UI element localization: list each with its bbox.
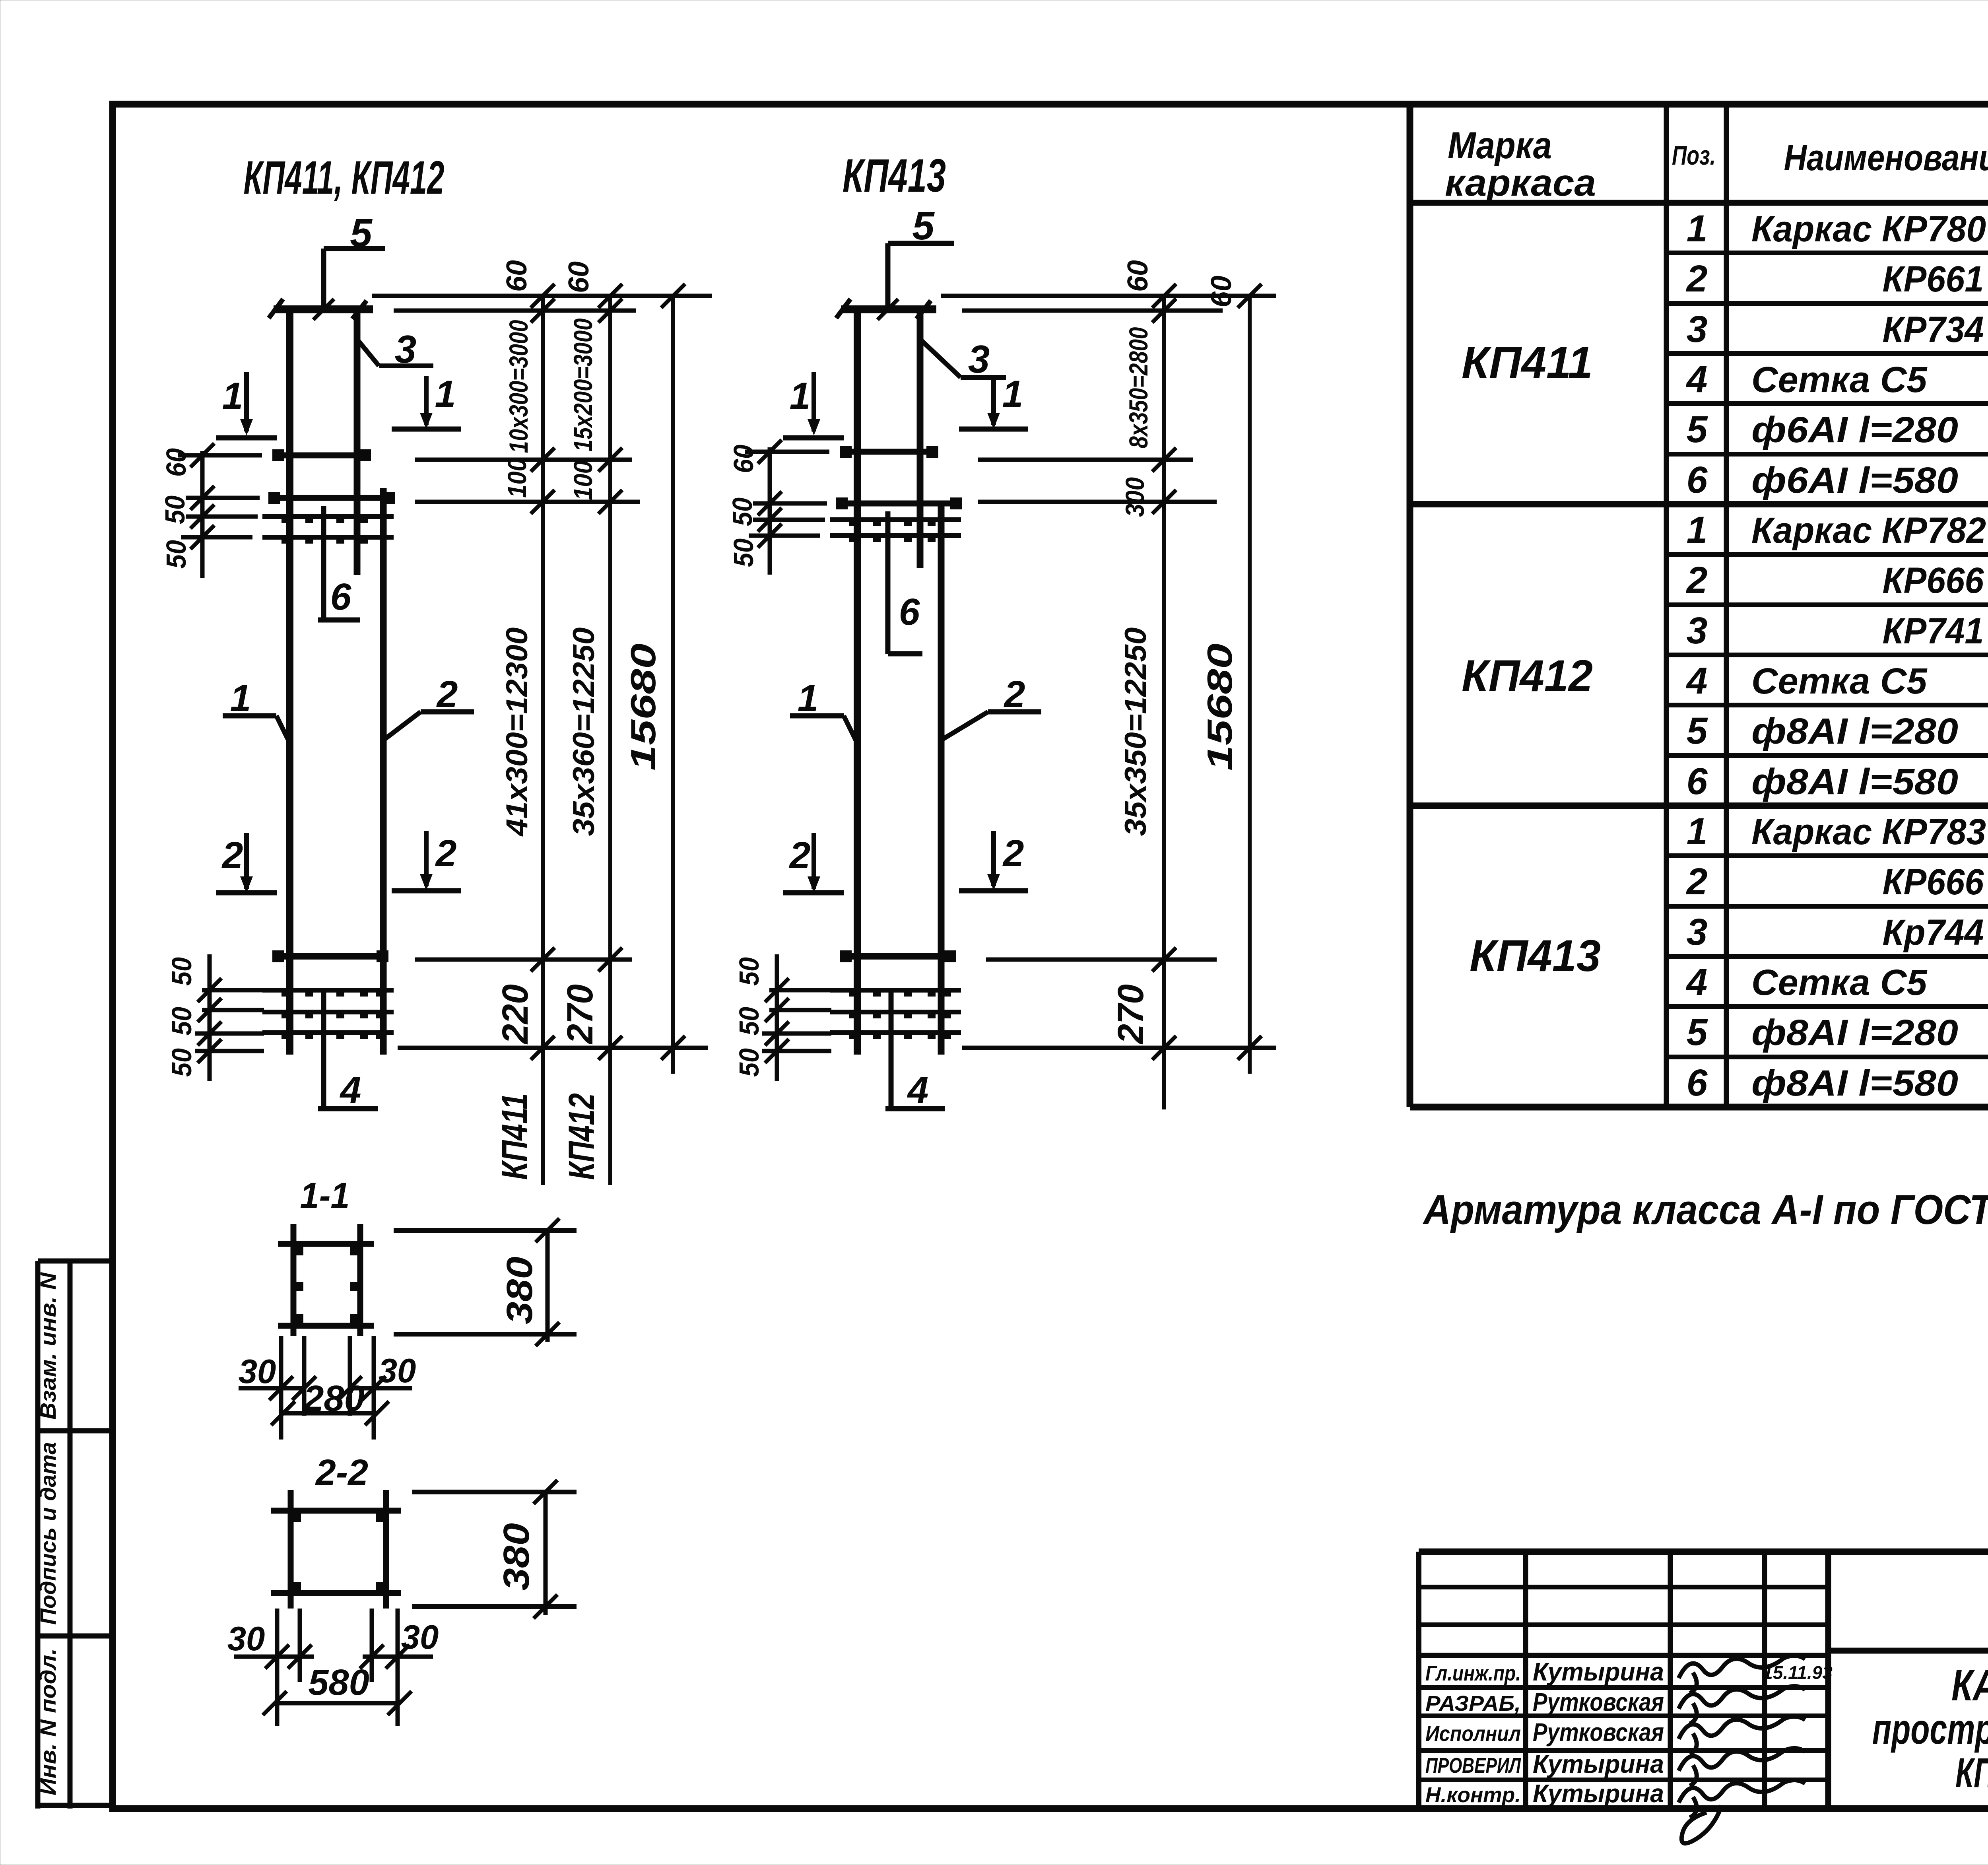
svg-text:Кр744: Кр744: [1883, 912, 1984, 953]
upper joint small dimension lines 60-50-50 (КП413): [745, 440, 829, 575]
svg-text:2: 2: [435, 832, 457, 874]
svg-text:100: 100: [568, 460, 598, 500]
upper joint small dimension lines 60-50-50 (left schematic): [178, 443, 262, 578]
svg-text:5: 5: [350, 211, 373, 255]
svg-text:Рутковская: Рутковская: [1533, 1718, 1664, 1746]
svg-text:Сетка С5: Сетка С5: [1751, 661, 1928, 701]
section mark 1 right (КП413): [959, 376, 1028, 429]
svg-text:Каркас КР782: Каркас КР782: [1751, 510, 1986, 551]
section mark 1 left (КП413): [783, 372, 844, 438]
svg-text:50: 50: [166, 1048, 197, 1077]
svg-text:Каркас КР780: Каркас КР780: [1751, 209, 1986, 249]
part label 1 with leader (КП413): [790, 716, 857, 743]
svg-text:КП413: КП413: [1470, 931, 1601, 981]
svg-text:1: 1: [1687, 810, 1708, 853]
section 1-1 bottom dimensions 30 280 30: [239, 1336, 412, 1440]
svg-text:380: 380: [499, 1257, 540, 1324]
svg-text:3: 3: [395, 327, 417, 371]
svg-text:50: 50: [734, 1048, 765, 1077]
svg-text:КП413: КП413: [843, 150, 946, 202]
svg-text:35x360=12250: 35x360=12250: [567, 627, 601, 836]
svg-text:каркаса: каркаса: [1445, 162, 1596, 204]
right lower longitudinal bar (КП413): [938, 503, 945, 1055]
svg-text:50: 50: [727, 497, 758, 526]
svg-text:КР661: КР661: [1883, 259, 1984, 299]
svg-text:280: 280: [303, 1378, 365, 1419]
svg-text:Взам. инв. N: Взам. инв. N: [35, 1272, 60, 1420]
svg-text:10x300=3000: 10x300=3000: [504, 320, 533, 453]
svg-text:Арматура класса А-I по ГОСТ: Арматура класса А-I по ГОСТ 5781-82: [1422, 1187, 1988, 1233]
svg-text:Наименование: Наименование: [1784, 138, 1988, 178]
upper joint crossbar with anchor squares (left schematic): [272, 449, 371, 461]
right upper longitudinal bar (КП413): [917, 308, 924, 568]
svg-text:КР741: КР741: [1883, 611, 1984, 651]
svg-text:60: 60: [1122, 260, 1154, 292]
svg-text:15680: 15680: [623, 643, 663, 771]
svg-text:Н.контр.: Н.контр.: [1425, 1783, 1521, 1807]
svg-text:8x350=2800: 8x350=2800: [1124, 327, 1153, 448]
svg-text:2: 2: [1686, 559, 1708, 601]
section 2-2 hoop square: [271, 1490, 401, 1609]
middle extension lines (left schematic): [415, 448, 640, 514]
svg-text:6: 6: [1687, 459, 1708, 501]
svg-text:35x350=12250: 35x350=12250: [1119, 627, 1153, 836]
svg-text:2: 2: [1686, 258, 1708, 300]
svg-text:15680: 15680: [1200, 643, 1239, 771]
svg-text:2: 2: [1002, 832, 1024, 874]
svg-text:ф8АI l=280: ф8АI l=280: [1751, 1012, 1958, 1053]
svg-text:КП411, КП412: КП411, КП412: [244, 152, 445, 204]
svg-text:5: 5: [1687, 1011, 1708, 1053]
mesh top bar with anchor squares (КП413): [836, 497, 962, 509]
svg-text:4: 4: [1686, 961, 1708, 1003]
overall dimension line 15680 (left schematic): [671, 296, 675, 1074]
bottom joint small dimension lines 50-50-50 (left schematic): [195, 954, 264, 1081]
upper joint crossbar with anchor squares (КП413): [840, 446, 938, 458]
svg-text:ф8АI l=580: ф8АI l=580: [1751, 762, 1958, 802]
part label 2 with leader (left schematic): [384, 712, 474, 740]
svg-text:КП412: КП412: [561, 1093, 602, 1180]
svg-text:Гл.инж.пр.: Гл.инж.пр.: [1425, 1661, 1521, 1685]
svg-text:60: 60: [563, 261, 595, 293]
bottom joint crossbar with anchor squares (КП413): [840, 950, 956, 962]
mesh wires upper joint (left schematic): [262, 517, 394, 544]
dimension line column B КП412 (left schematic): [608, 296, 612, 1185]
svg-text:КП412: КП412: [1462, 651, 1593, 701]
svg-text:Кутырина: Кутырина: [1533, 1750, 1664, 1778]
column top crossbar (КП413): [836, 299, 936, 319]
svg-text:50: 50: [728, 538, 759, 567]
svg-text:Сетка С5: Сетка С5: [1751, 359, 1928, 400]
dimension line column A КП411 (left schematic): [541, 296, 545, 1185]
svg-text:Исполнил: Исполнил: [1425, 1722, 1521, 1746]
svg-text:ПРОВЕРИЛ: ПРОВЕРИЛ: [1425, 1754, 1521, 1778]
overall dimension line 15680 (КП413): [1248, 296, 1252, 1074]
svg-text:1: 1: [790, 375, 811, 417]
section 2-2 bottom dimensions 30 580 30: [234, 1609, 433, 1726]
svg-text:580: 580: [308, 1662, 369, 1703]
svg-text:Рутковская: Рутковская: [1533, 1688, 1664, 1716]
svg-text:50: 50: [734, 1007, 765, 1035]
svg-text:50: 50: [161, 540, 192, 569]
svg-text:1: 1: [435, 373, 456, 415]
svg-text:6: 6: [1687, 760, 1708, 802]
svg-text:4: 4: [1686, 358, 1708, 400]
leader 3 (left schematic): [357, 339, 433, 366]
svg-text:2: 2: [789, 834, 811, 876]
leader 6 bracket (left schematic): [318, 506, 360, 620]
leader 3 (КП413): [920, 339, 1006, 377]
bottom joint crossbar with anchor squares (left schematic): [272, 950, 388, 962]
svg-text:КР666: КР666: [1883, 862, 1984, 902]
left longitudinal bar (left schematic): [286, 306, 293, 1055]
svg-text:КАРКАС: КАРКАС: [1951, 1661, 1988, 1710]
svg-text:50: 50: [166, 1007, 197, 1035]
svg-text:1: 1: [222, 375, 243, 417]
bottom extension lines (left schematic): [398, 948, 708, 1060]
svg-text:6: 6: [330, 576, 352, 618]
svg-text:1: 1: [1687, 208, 1708, 250]
right upper longitudinal bar (left schematic): [354, 306, 361, 575]
svg-text:Марка: Марка: [1448, 124, 1552, 167]
svg-text:100: 100: [502, 458, 532, 498]
leader 4 bracket (КП413): [885, 992, 945, 1109]
svg-text:3: 3: [968, 337, 990, 381]
svg-text:5: 5: [912, 204, 935, 248]
svg-text:ф8АI l=580: ф8АI l=580: [1751, 1063, 1958, 1103]
svg-text:3: 3: [1687, 911, 1708, 953]
svg-text:Сетка С5: Сетка С5: [1751, 962, 1928, 1003]
middle extension lines (КП413): [978, 448, 1217, 514]
signature scribbles: [1679, 1655, 1805, 1843]
title block signature rows text: [1425, 1657, 1664, 1808]
svg-text:2: 2: [221, 834, 243, 876]
bottom extension lines (КП413): [962, 948, 1276, 1060]
section mark 2 left (left schematic): [216, 833, 277, 893]
section 2-2 side dimension 380: [412, 1480, 577, 1618]
section mark 2 right (left schematic): [392, 831, 461, 891]
svg-text:60: 60: [1206, 276, 1237, 307]
svg-text:60: 60: [161, 448, 192, 477]
svg-text:1: 1: [1687, 509, 1708, 551]
svg-text:2-2: 2-2: [315, 1452, 368, 1493]
svg-text:Кутырина: Кутырина: [1533, 1779, 1664, 1808]
svg-text:КР666: КР666: [1883, 560, 1984, 601]
svg-text:2: 2: [436, 673, 458, 715]
svg-text:6: 6: [1687, 1062, 1708, 1104]
left longitudinal bar (КП413): [854, 306, 861, 1055]
parts table grid: [1410, 104, 1988, 1107]
svg-text:КП411: КП411: [1462, 338, 1593, 387]
svg-text:1-1: 1-1: [300, 1175, 350, 1216]
svg-text:КП411: КП411: [495, 1093, 535, 1180]
svg-text:30: 30: [379, 1352, 416, 1390]
svg-text:3: 3: [1687, 308, 1708, 350]
column top crossbar (left schematic): [269, 299, 373, 319]
right lower longitudinal bar (left schematic): [380, 488, 387, 1055]
section mark 2 left (КП413): [783, 833, 844, 893]
svg-text:380: 380: [496, 1523, 537, 1591]
svg-text:50: 50: [166, 957, 197, 986]
svg-text:ф8АI l=280: ф8АI l=280: [1751, 711, 1958, 752]
left sidebar column boxes: [38, 1261, 113, 1809]
top extension lines (КП413): [941, 284, 1276, 322]
svg-text:1: 1: [798, 677, 819, 719]
mesh wires upper joint (КП413): [830, 520, 961, 542]
svg-text:270: 270: [560, 984, 600, 1045]
section mark 1 left (left schematic): [216, 372, 277, 438]
svg-text:6: 6: [899, 591, 920, 633]
svg-text:5: 5: [1687, 710, 1708, 752]
svg-text:60: 60: [728, 445, 759, 473]
part label 2 with leader (КП413): [942, 712, 1041, 740]
svg-text:ф6АI l=280: ф6АI l=280: [1751, 410, 1958, 450]
svg-text:Кутырина: Кутырина: [1533, 1657, 1664, 1686]
mesh wires bottom joint (left schematic): [262, 990, 394, 1039]
svg-text:1: 1: [230, 677, 251, 719]
section 1-1 hoop square: [278, 1224, 374, 1336]
svg-text:3: 3: [1687, 610, 1708, 652]
section 1-1 side dimension 380: [394, 1218, 577, 1346]
svg-text:30: 30: [227, 1620, 265, 1658]
svg-text:КП411 ... КП413: КП411 ... КП413: [1955, 1750, 1988, 1796]
svg-text:60: 60: [501, 260, 533, 292]
section mark 2 right (КП413): [959, 831, 1028, 891]
mesh wires bottom joint (КП413): [830, 990, 961, 1039]
section mark 1 right (left schematic): [392, 376, 461, 429]
svg-text:270: 270: [1110, 984, 1151, 1045]
svg-text:Подпись и дата: Подпись и дата: [35, 1442, 60, 1625]
svg-text:Каркас КР783: Каркас КР783: [1751, 812, 1986, 852]
svg-text:2: 2: [1004, 673, 1025, 715]
svg-text:2: 2: [1686, 861, 1708, 903]
svg-text:4: 4: [907, 1069, 929, 1111]
leader 5 bracket (КП413): [878, 243, 954, 320]
svg-text:РАЗРАБ,: РАЗРАБ,: [1425, 1692, 1521, 1715]
svg-text:41x300=12300: 41x300=12300: [500, 627, 534, 837]
svg-text:пространственный: пространственный: [1872, 1705, 1988, 1753]
mesh top bar with anchor squares (left schematic): [268, 492, 395, 504]
svg-text:4: 4: [1686, 660, 1708, 702]
svg-text:30: 30: [401, 1618, 439, 1656]
svg-text:Инв. N подл.: Инв. N подл.: [35, 1648, 60, 1795]
svg-text:КР734: КР734: [1883, 309, 1984, 350]
svg-text:220: 220: [495, 984, 536, 1045]
part label 1 with leader (left schematic): [223, 716, 290, 743]
svg-text:ф6АI l=580: ф6АI l=580: [1751, 460, 1958, 501]
svg-text:5: 5: [1687, 408, 1708, 451]
dimension line column КП413: [1162, 296, 1166, 1109]
svg-text:300: 300: [1120, 477, 1149, 517]
top extension lines (left schematic): [372, 284, 712, 322]
bottom joint small dimension lines 50-50-50 (КП413): [762, 954, 831, 1081]
leader 6 bracket (КП413): [888, 511, 922, 654]
table rows content: [1686, 208, 1988, 1104]
leader 5 bracket (left schematic): [313, 249, 385, 320]
leader 4 bracket (left schematic): [318, 992, 378, 1109]
svg-text:50: 50: [734, 957, 765, 986]
svg-text:1: 1: [1002, 373, 1023, 415]
title block outer and grid: [1419, 1552, 1988, 1805]
svg-text:50: 50: [159, 495, 190, 524]
svg-text:Поз.: Поз.: [1672, 140, 1716, 171]
svg-text:4: 4: [340, 1069, 361, 1111]
svg-text:15x200=3000: 15x200=3000: [568, 318, 598, 451]
svg-text:30: 30: [239, 1353, 276, 1391]
